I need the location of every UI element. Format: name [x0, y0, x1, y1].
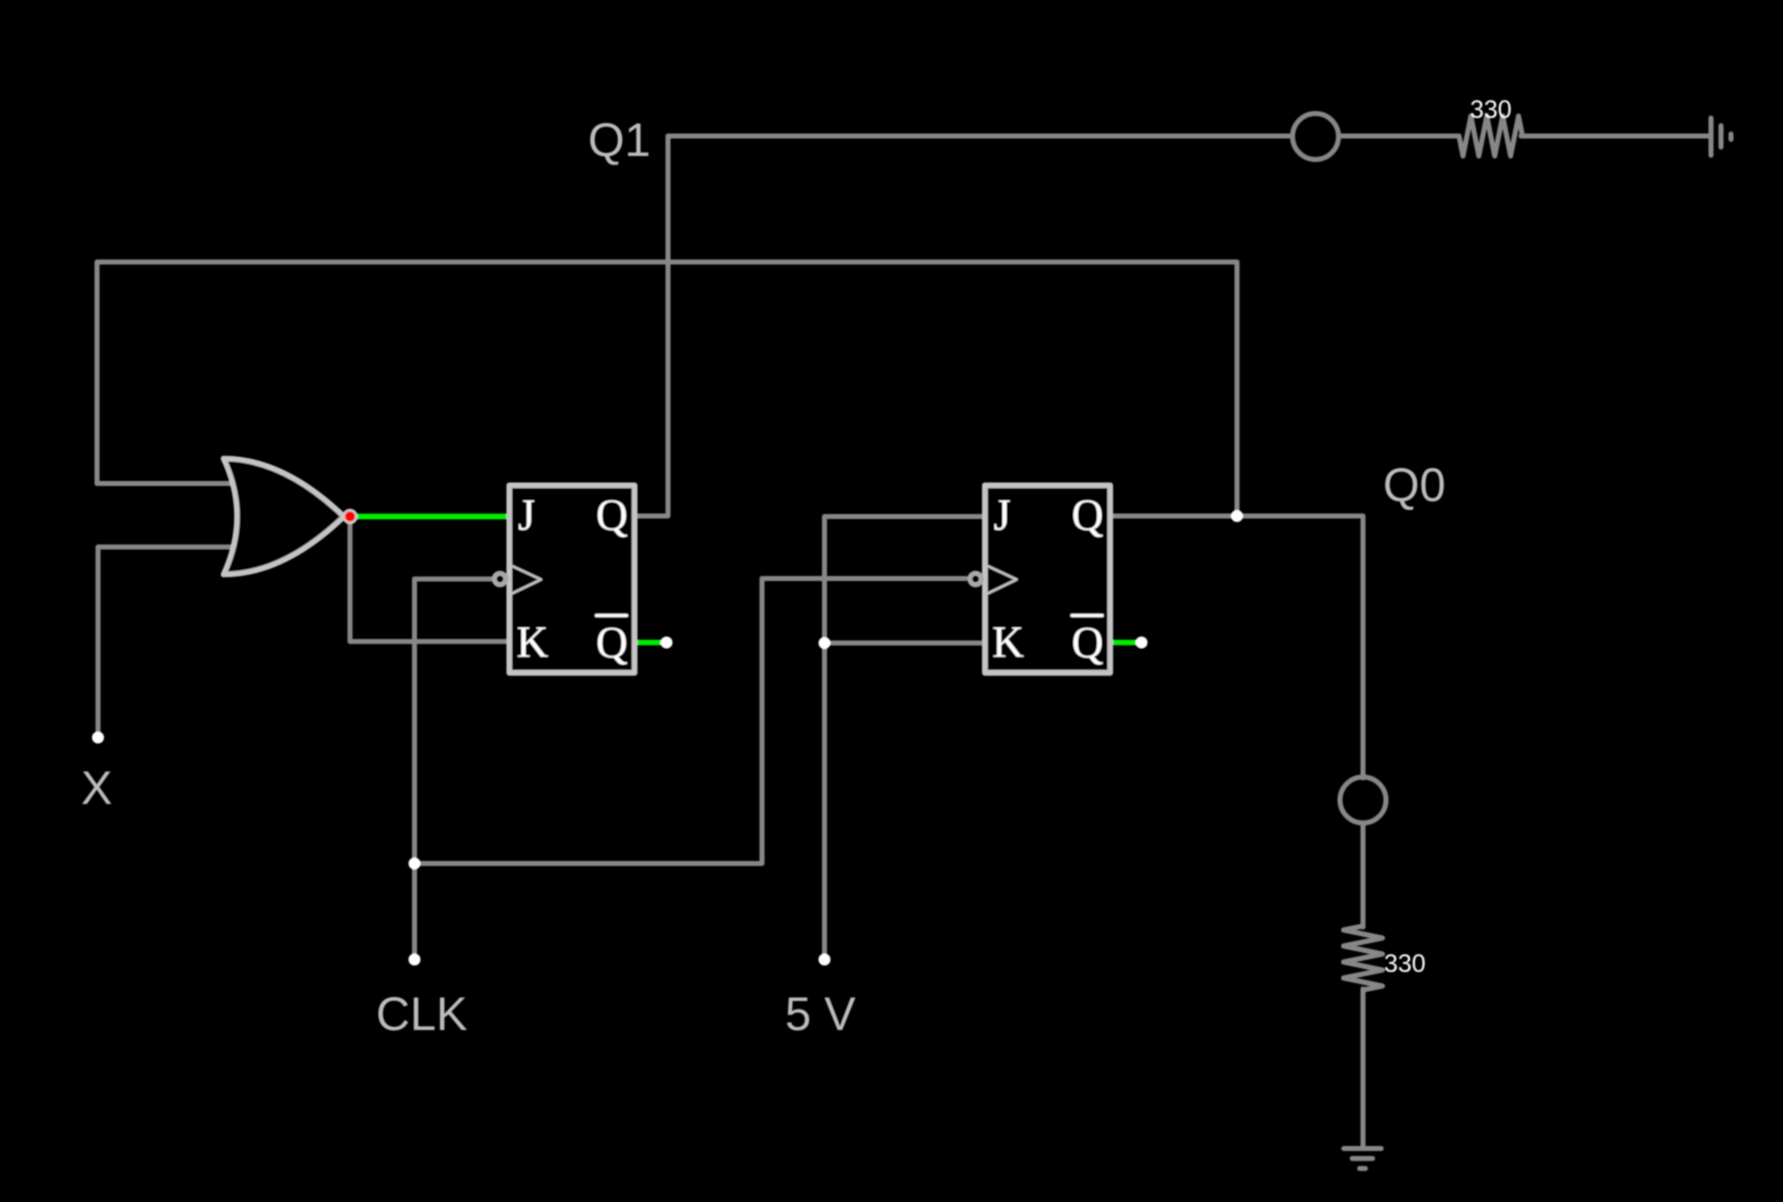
svg-text:Q0: Q0 [1383, 458, 1446, 511]
node CLK terminal [409, 954, 421, 966]
ground (bottom right, facing down) [1344, 1149, 1381, 1169]
svg-text:J: J [994, 491, 1011, 540]
wire green OR output to FF1 J (logic high) [352, 514, 510, 520]
wire green FF2 Qbar stub [1111, 640, 1137, 646]
FF1 clock chevron [512, 566, 541, 594]
wire Q1 net: FF1 Q output up and across top [634, 136, 1291, 516]
svg-text:K: K [517, 618, 549, 667]
wire R2 to ground [1361, 989, 1366, 1148]
svg-text:330: 330 [1384, 950, 1426, 978]
node CLK junction [409, 858, 421, 870]
wire R1 to ground [1521, 134, 1711, 139]
svg-text:Q: Q [596, 491, 628, 540]
svg-text:Q: Q [1072, 618, 1104, 667]
node FF2 Qbar post [1136, 637, 1148, 649]
wire green FF1 Qbar stub [636, 640, 662, 646]
svg-text:J: J [518, 491, 535, 540]
LED D2 (right, unlit) [1340, 777, 1386, 823]
svg-text:330: 330 [1470, 96, 1512, 124]
svg-text:X: X [81, 761, 112, 814]
svg-text:Q1: Q1 [588, 113, 651, 166]
svg-text:CLK: CLK [376, 987, 467, 1040]
node Q0 junction [1231, 510, 1243, 522]
node FF1 Qbar post [661, 637, 673, 649]
svg-text:K: K [992, 618, 1024, 667]
node X terminal [92, 732, 104, 744]
FF2 clock chevron [988, 566, 1017, 594]
wire LED2 to resistor R2 [1361, 823, 1366, 927]
wire X input to OR input B [98, 547, 239, 736]
wire CLK branch to FF2 clock [415, 579, 967, 864]
FF1 clock bubble [494, 573, 505, 584]
node 5V/K junction [819, 637, 831, 649]
node OR output post (red, logic high) [344, 510, 357, 523]
svg-text:Q: Q [1072, 491, 1104, 540]
wire 5V to FF2 J [825, 517, 985, 960]
flip-flop U2 (JK FF1) box [509, 485, 634, 673]
wire feedback net Q0 to OR input A (long horizontal) [97, 262, 1237, 516]
LED D1 (top, unlit) [1293, 114, 1339, 160]
resistor R2 330 (vertical) [1344, 926, 1383, 990]
wire OR input A stub [97, 481, 239, 486]
svg-text:Q: Q [596, 618, 628, 667]
wire OR output branch to FF1 K [350, 518, 510, 642]
FF2 clock bubble [970, 573, 981, 584]
wire CLK vertical to FF1 clock [415, 579, 493, 959]
wire LED1 to resistor R1 [1340, 134, 1459, 139]
ground (top right, facing right) [1711, 118, 1731, 155]
flip-flop U3 (JK FF2) box [985, 485, 1110, 673]
svg-text:5 V: 5 V [785, 987, 856, 1040]
wire 5V branch to FF2 K [825, 641, 985, 646]
node 5V terminal [819, 954, 831, 966]
OR gate U1 body [224, 459, 345, 575]
wire FF2 Q output to Q0 node and down to LED2 [1110, 516, 1363, 778]
resistor R1 330 (horizontal) [1459, 116, 1523, 156]
